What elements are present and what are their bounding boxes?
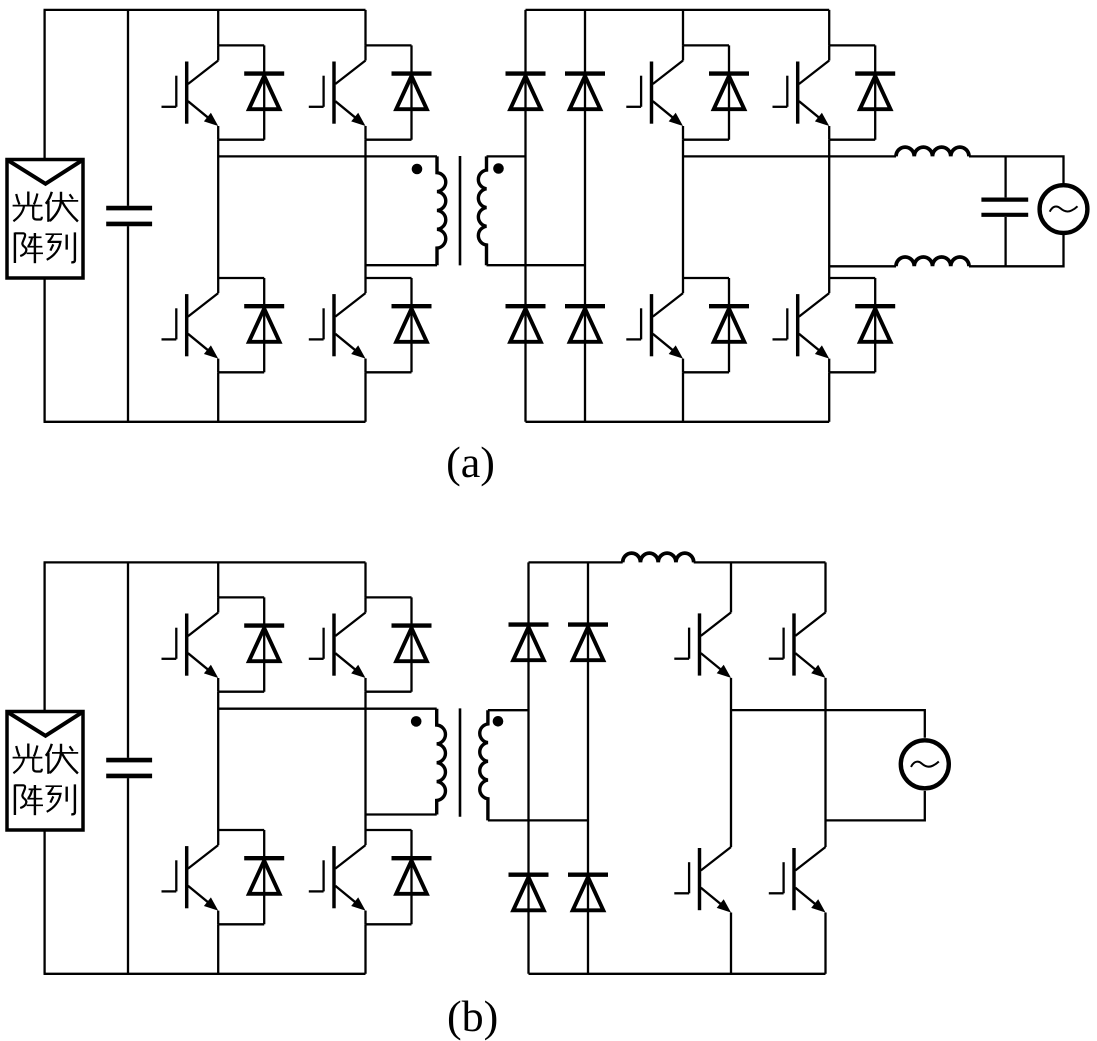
wire: secondary bottom lead (b) bbox=[488, 819, 588, 821]
transistor Q3a bbox=[162, 293, 219, 359]
wire bbox=[824, 678, 826, 847]
wire bbox=[217, 372, 219, 422]
wire bbox=[364, 359, 366, 373]
diode D5a bbox=[506, 74, 546, 110]
diode D3a (antiparallel) bbox=[218, 278, 284, 372]
wire: diode leg A (a) bbox=[524, 10, 526, 422]
wire bbox=[682, 278, 684, 293]
wire bbox=[43, 562, 45, 711]
wire bbox=[217, 278, 219, 293]
wire bbox=[364, 372, 366, 422]
wire: diode leg A (b) bbox=[527, 562, 529, 973]
transistor Q4a bbox=[309, 293, 366, 359]
transistor Q3b bbox=[162, 845, 219, 911]
transistor Q8b bbox=[769, 847, 826, 913]
wire bbox=[364, 45, 366, 60]
wire bbox=[217, 911, 219, 925]
wire: DC bus bottom rail (b) bbox=[44, 973, 366, 975]
wire bbox=[217, 692, 219, 830]
wire bbox=[828, 278, 830, 293]
wire bbox=[364, 924, 366, 974]
transistor Q8a bbox=[773, 293, 830, 359]
wire bbox=[969, 156, 1064, 183]
wire: switch leg D (a) bbox=[828, 10, 830, 46]
wire: rectifier top rail left part (b) bbox=[529, 561, 623, 563]
wire bbox=[127, 562, 129, 758]
polarity dot secondary (a) bbox=[493, 163, 504, 174]
wire bbox=[127, 226, 129, 422]
wire bbox=[364, 140, 366, 278]
wire: primary bottom lead (b) bbox=[366, 813, 437, 815]
wire bbox=[364, 830, 366, 845]
transformer core (a) bbox=[459, 156, 462, 265]
wire: cycloconverter top rail (a) bbox=[526, 9, 830, 11]
transistor Q1a bbox=[162, 61, 219, 127]
wire: diode leg B (b) bbox=[587, 562, 589, 973]
wire bbox=[217, 678, 219, 692]
wire bbox=[364, 911, 366, 925]
wire: bridge leg 2 (b) bbox=[364, 562, 366, 597]
diode D8a bbox=[565, 306, 605, 342]
wire bbox=[127, 10, 129, 206]
AC source grid (b) bbox=[901, 740, 949, 788]
wire bbox=[730, 678, 732, 847]
wire bbox=[828, 140, 830, 278]
diode D5b bbox=[509, 625, 549, 661]
wire bbox=[364, 597, 366, 612]
wire bbox=[682, 126, 684, 140]
diode D6b bbox=[568, 625, 608, 661]
wire: primary top lead (a) bbox=[218, 155, 437, 157]
transformer winding T2 secondary (b) bbox=[480, 710, 488, 820]
wire: secondary top lead (b) bbox=[488, 709, 529, 711]
wire bbox=[43, 830, 45, 974]
diode D11a (antiparallel) bbox=[683, 278, 749, 372]
wire: DC bus top rail (a) bbox=[44, 9, 366, 11]
wire bbox=[127, 778, 129, 974]
wire bbox=[217, 830, 219, 845]
wire bbox=[682, 140, 684, 278]
wire bbox=[217, 45, 219, 60]
wire bbox=[1004, 156, 1006, 197]
wire: rectifier top rail right part (b) bbox=[694, 561, 826, 563]
wire: DC bus bottom rail (a) bbox=[44, 421, 366, 423]
inductor Lf2 (a) bbox=[896, 257, 969, 266]
wire bbox=[969, 235, 1064, 266]
wire: secondary bottom lead (a) bbox=[487, 264, 586, 266]
PV array box (b) 光伏阵列 bbox=[7, 712, 83, 831]
transistor Q2b bbox=[309, 613, 366, 679]
wire bbox=[217, 924, 219, 974]
wire bbox=[730, 913, 732, 974]
diode D6a bbox=[565, 74, 605, 110]
wire bbox=[364, 692, 366, 830]
wire: DC bus top rail (b) bbox=[44, 561, 366, 563]
wire bbox=[1004, 217, 1006, 266]
wire bbox=[217, 140, 219, 278]
diode D10a (antiparallel) bbox=[829, 45, 895, 139]
transistor Q4b bbox=[309, 845, 366, 911]
diode D12a (antiparallel) bbox=[829, 278, 895, 372]
wire: cycloconverter bottom rail (a) bbox=[526, 421, 830, 423]
diode D2b (antiparallel) bbox=[366, 597, 432, 691]
wire: bridge leg 1 (a) bbox=[217, 10, 219, 46]
diode D4a (antiparallel) bbox=[366, 278, 432, 372]
transistor Q2a bbox=[309, 61, 366, 127]
polarity dot primary (a) bbox=[412, 164, 423, 175]
wire bbox=[828, 359, 830, 373]
wire: inverter leg C (b) bbox=[730, 562, 732, 612]
wire bbox=[682, 372, 684, 422]
polarity dot secondary (b) bbox=[493, 716, 504, 727]
polarity dot primary (b) bbox=[411, 716, 422, 727]
transistor Q5a bbox=[626, 61, 683, 127]
wire bbox=[364, 126, 366, 140]
wire bbox=[682, 45, 684, 60]
PV array box (a) 光伏阵列 bbox=[7, 160, 83, 279]
transistor Q1b bbox=[162, 613, 219, 679]
diode D2a (antiparallel) bbox=[366, 45, 432, 139]
wire: diode leg B (a) bbox=[584, 10, 586, 422]
wire: bridge leg 2 (a) bbox=[364, 10, 366, 46]
wire: output bottom (b) bbox=[826, 791, 925, 821]
transistor Q6a bbox=[773, 61, 830, 127]
wire: output top (a) bbox=[683, 155, 896, 157]
transformer winding T1 secondary (a) bbox=[478, 156, 486, 265]
wire bbox=[217, 126, 219, 140]
wire bbox=[828, 372, 830, 422]
AC source grid (a) bbox=[1040, 185, 1088, 233]
diode D7a bbox=[506, 306, 546, 342]
inductor Lf1 (a) bbox=[896, 147, 969, 156]
wire bbox=[682, 359, 684, 373]
diode D8b bbox=[568, 875, 608, 911]
wire: secondary top lead (a) bbox=[487, 155, 526, 157]
wire bbox=[217, 359, 219, 373]
capacitor Cf (a) bbox=[981, 198, 1028, 202]
wire: inverter leg D (b) bbox=[824, 562, 826, 612]
inductor Ldc (b) bbox=[623, 553, 694, 562]
transistor Q6b bbox=[769, 612, 826, 678]
svg-text:(b): (b) bbox=[447, 992, 498, 1041]
diode D7b bbox=[509, 875, 549, 911]
wire: output top (b) bbox=[731, 710, 925, 738]
wire: output bottom (a) bbox=[829, 265, 896, 267]
transformer winding T1 primary (a) bbox=[437, 156, 446, 265]
wire: switch leg C (a) bbox=[682, 10, 684, 46]
transistor Q5b bbox=[674, 612, 731, 678]
transformer winding T2 primary (b) bbox=[437, 709, 446, 815]
svg-text:(a): (a) bbox=[446, 438, 495, 487]
transistor Q7b bbox=[674, 847, 731, 913]
wire bbox=[217, 597, 219, 612]
capacitor Cdc-b bbox=[106, 758, 152, 763]
wire bbox=[43, 278, 45, 422]
wire bbox=[364, 678, 366, 692]
wire bbox=[824, 913, 826, 974]
diode D4b (antiparallel) bbox=[366, 830, 432, 924]
wire: bridge leg 1 (b) bbox=[217, 562, 219, 597]
diode D9a (antiparallel) bbox=[683, 45, 749, 139]
transistor Q7a bbox=[626, 293, 683, 359]
capacitor Cdc-a bbox=[106, 206, 152, 211]
wire bbox=[828, 45, 830, 60]
wire bbox=[828, 126, 830, 140]
diode D1b (antiparallel) bbox=[218, 597, 284, 691]
wire: primary bottom lead (a) bbox=[366, 264, 438, 266]
wire: bottom rail (b right) bbox=[529, 973, 826, 975]
wire bbox=[364, 278, 366, 293]
diode D3b (antiparallel) bbox=[218, 830, 284, 924]
wire bbox=[43, 10, 45, 160]
diode D1a (antiparallel) bbox=[218, 45, 284, 139]
transformer core (b) bbox=[459, 708, 462, 816]
wire: primary top lead (b) bbox=[218, 708, 437, 710]
